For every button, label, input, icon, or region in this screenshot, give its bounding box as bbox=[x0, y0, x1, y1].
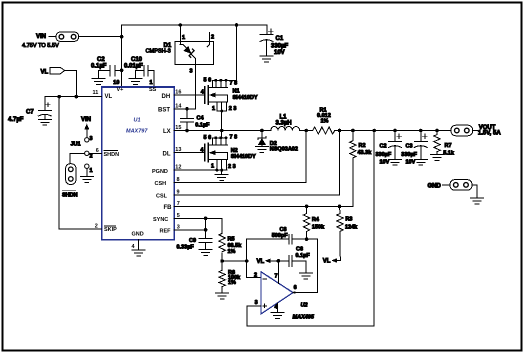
node R4/C8 junction bbox=[305, 237, 309, 241]
wire C8 node to op-amp output bbox=[307, 239, 318, 292]
SKIP overline bbox=[105, 225, 116, 227]
svg-text:0.33µF: 0.33µF bbox=[177, 245, 195, 251]
svg-text:330µF: 330µF bbox=[271, 44, 288, 50]
wire LX line bbox=[174, 130, 271, 132]
svg-text:MAX797: MAX797 bbox=[126, 129, 148, 135]
svg-text:1: 1 bbox=[90, 168, 93, 174]
wire BST bbox=[174, 108, 195, 110]
svg-text:10: 10 bbox=[113, 80, 119, 86]
node C2 tap bbox=[120, 69, 124, 73]
svg-text:15: 15 bbox=[175, 125, 181, 131]
svg-text:4.75V TO 5.5V: 4.75V TO 5.5V bbox=[22, 43, 59, 49]
svg-text:5.1k: 5.1k bbox=[443, 151, 455, 157]
transistor N2 Si4410DY bbox=[200, 131, 256, 171]
wire op-amp pin7 supply bbox=[277, 261, 279, 284]
svg-text:DH: DH bbox=[162, 94, 171, 100]
svg-text:SHDN: SHDN bbox=[62, 193, 78, 199]
svg-text:R4: R4 bbox=[312, 217, 320, 223]
ground C2 bbox=[92, 78, 105, 84]
ground C6 bbox=[299, 273, 312, 279]
diode D1 CMPSH-3 bbox=[146, 25, 215, 74]
svg-text:CMPSH-3: CMPSH-3 bbox=[146, 48, 171, 54]
diode D2 NSQ03A02 bbox=[258, 131, 298, 153]
capacitor C4 bbox=[181, 109, 211, 131]
svg-text:1%: 1% bbox=[321, 119, 329, 125]
svg-text:1: 1 bbox=[212, 106, 215, 112]
svg-text:SS: SS bbox=[149, 87, 157, 93]
wire JU1 pin2 to SHDN connector bbox=[70, 153, 85, 163]
node inv input junction bbox=[245, 259, 249, 263]
capacitor C9 bbox=[177, 238, 213, 251]
capacitor C7 bbox=[8, 97, 51, 123]
connector J3 GND bbox=[428, 180, 478, 198]
svg-text:LX: LX bbox=[163, 129, 171, 135]
wire REF bbox=[174, 229, 206, 231]
svg-text:4: 4 bbox=[132, 244, 136, 250]
resistor R7 bbox=[434, 131, 455, 157]
svg-text:VIN: VIN bbox=[81, 117, 91, 123]
svg-text:0.01µF: 0.01µF bbox=[124, 64, 143, 70]
svg-text:C4: C4 bbox=[197, 115, 205, 121]
svg-text:2: 2 bbox=[254, 272, 257, 278]
node C3out tap bbox=[419, 129, 423, 133]
ground R7 bbox=[431, 155, 444, 161]
connector J2 VOUT bbox=[451, 125, 501, 137]
capacitor C10 bbox=[124, 57, 154, 87]
ground N2 source bbox=[215, 170, 228, 181]
wire CSL sense bbox=[174, 131, 339, 195]
wire inv node to pin2 bbox=[247, 261, 261, 278]
svg-text:Si4410DY: Si4410DY bbox=[231, 154, 256, 160]
svg-text:V+: V+ bbox=[117, 87, 124, 93]
ground C9 bbox=[199, 250, 212, 256]
svg-text:C2: C2 bbox=[380, 144, 387, 150]
svg-text:N2: N2 bbox=[231, 148, 238, 154]
ground R6 bbox=[216, 293, 229, 299]
wire PGND line bbox=[174, 169, 227, 171]
svg-text:CSH: CSH bbox=[155, 181, 167, 187]
svg-text:R7: R7 bbox=[445, 143, 452, 149]
node REF junction bbox=[204, 228, 208, 232]
resistor R4 bbox=[303, 206, 325, 239]
wire CSH sense bbox=[174, 131, 306, 183]
svg-text:SYNC: SYNC bbox=[153, 217, 168, 223]
wire D1 pin3 to BST bbox=[194, 65, 196, 109]
svg-text:1%: 1% bbox=[228, 249, 236, 255]
wire REF to C9 bbox=[205, 218, 207, 238]
svg-text:10V: 10V bbox=[380, 160, 390, 166]
svg-text:5 6: 5 6 bbox=[204, 135, 212, 141]
wire inv node up to C8 bbox=[247, 239, 289, 261]
wire to inv input node bbox=[222, 260, 247, 262]
svg-text:DL: DL bbox=[163, 151, 171, 157]
inductor L1 bbox=[271, 114, 300, 130]
node CSL sense tap bbox=[338, 129, 342, 133]
jumper JU1 pin1 bbox=[85, 164, 93, 177]
capacitor C3 output bbox=[401, 131, 427, 166]
ground C10 bbox=[129, 78, 142, 84]
capacitor C2 output bbox=[376, 131, 402, 166]
node R7 tap bbox=[435, 129, 439, 133]
node BST/C4 junction bbox=[185, 107, 189, 111]
wire N1 drain to top rail bbox=[236, 25, 238, 80]
svg-text:2 3: 2 3 bbox=[229, 106, 237, 112]
svg-text:3: 3 bbox=[90, 136, 93, 142]
svg-text:1: 1 bbox=[150, 80, 153, 86]
svg-text:REF: REF bbox=[160, 228, 172, 234]
svg-text:MAX495: MAX495 bbox=[293, 314, 315, 320]
svg-text:R5: R5 bbox=[228, 237, 235, 243]
svg-text:VIN: VIN bbox=[36, 34, 46, 40]
node C2out tap bbox=[393, 129, 397, 133]
node SKIP branch junction bbox=[57, 95, 61, 99]
ground C7 bbox=[38, 119, 51, 125]
svg-text:CSL: CSL bbox=[156, 193, 168, 199]
svg-text:7: 7 bbox=[275, 273, 278, 279]
svg-text:10V: 10V bbox=[274, 50, 285, 56]
node N2 source junctions bbox=[215, 169, 218, 172]
connector SHDN header bbox=[62, 164, 78, 199]
ground U1 GND bbox=[132, 250, 145, 256]
svg-text:SKIP: SKIP bbox=[104, 227, 117, 233]
node VIN junction bbox=[120, 35, 124, 39]
node VL flag junction bbox=[75, 95, 79, 99]
svg-text:C1: C1 bbox=[276, 36, 284, 42]
svg-text:R2: R2 bbox=[359, 143, 366, 149]
wire SYNC bbox=[174, 218, 222, 233]
wire DH to N1 gate bbox=[174, 94, 205, 96]
ground op-amp pin4 bbox=[271, 313, 284, 319]
svg-text:Si4410DY: Si4410DY bbox=[233, 95, 258, 101]
svg-text:2: 2 bbox=[90, 154, 93, 160]
resistor R2 bbox=[350, 131, 373, 158]
node R4 tap on FB bbox=[305, 205, 309, 209]
svg-text:330µF: 330µF bbox=[401, 152, 417, 158]
svg-text:3: 3 bbox=[255, 300, 258, 306]
IC U1 MAX797 controller bbox=[102, 87, 174, 240]
wire op-amp output bbox=[293, 292, 317, 294]
node VL tag R3 bbox=[323, 258, 337, 264]
wire R1 to output node bbox=[334, 130, 451, 132]
svg-text:3.3µH: 3.3µH bbox=[276, 120, 292, 126]
svg-text:GND: GND bbox=[132, 231, 144, 237]
svg-text:N1: N1 bbox=[233, 89, 240, 95]
svg-text:5 6: 5 6 bbox=[204, 78, 212, 84]
svg-text:1: 1 bbox=[211, 164, 214, 170]
svg-text:GND: GND bbox=[428, 183, 442, 189]
svg-text:FB: FB bbox=[164, 205, 173, 211]
svg-text:R3: R3 bbox=[345, 216, 352, 222]
capacitor C1 bbox=[260, 25, 288, 56]
node SYNC/REF tie bbox=[204, 217, 208, 221]
svg-text:VL: VL bbox=[323, 259, 331, 265]
wire op-amp pin3 sense bbox=[247, 131, 374, 327]
svg-text:43.3k: 43.3k bbox=[358, 150, 373, 156]
svg-text:VL: VL bbox=[257, 259, 265, 265]
node R3 tap on FB bbox=[338, 205, 342, 209]
pin numbers U1 bbox=[93, 89, 183, 250]
svg-text:7 8: 7 8 bbox=[230, 135, 238, 141]
resistor R6 bbox=[219, 261, 241, 293]
svg-text:6: 6 bbox=[294, 285, 297, 291]
svg-text:1: 1 bbox=[182, 35, 185, 41]
svg-text:124k: 124k bbox=[345, 224, 358, 230]
svg-text:U2: U2 bbox=[301, 303, 308, 309]
capacitor C6 bbox=[289, 247, 310, 274]
wire DL to N2 gate bbox=[174, 152, 205, 154]
SHDN overline bbox=[104, 150, 118, 152]
node D1 anode tap bbox=[179, 23, 183, 27]
node R5/R6 junction bbox=[220, 259, 224, 263]
svg-text:C7: C7 bbox=[26, 110, 34, 116]
svg-text:C9: C9 bbox=[189, 238, 196, 244]
node VL tag op-amp bbox=[257, 259, 289, 265]
svg-text:C2: C2 bbox=[97, 57, 105, 63]
svg-text:500pF: 500pF bbox=[272, 233, 289, 239]
op-amp U2 bbox=[254, 272, 315, 321]
svg-text:1.5V, 5A: 1.5V, 5A bbox=[478, 131, 501, 137]
svg-text:C3: C3 bbox=[406, 144, 413, 150]
wire U1 GND pin bbox=[138, 240, 140, 250]
svg-text:SHDN: SHDN bbox=[104, 152, 120, 158]
jumper JU1 bbox=[71, 117, 93, 160]
node D2/LX bbox=[260, 129, 264, 133]
svg-text:3: 3 bbox=[190, 68, 193, 74]
wire VIN to V+ node bbox=[79, 36, 122, 38]
ground C2 output bbox=[389, 159, 402, 165]
svg-text:C10: C10 bbox=[131, 57, 143, 63]
ground J3 bbox=[471, 198, 484, 204]
wire JU1 pin2 to SHDN pin bbox=[89, 152, 102, 154]
wire L1 to R1 bbox=[300, 130, 313, 132]
resistor R5 bbox=[219, 233, 242, 261]
resistor R1 bbox=[313, 108, 335, 134]
svg-text:0.1µF: 0.1µF bbox=[91, 64, 107, 70]
node N1 source/LX bbox=[220, 129, 224, 133]
node N1 drain tap bbox=[235, 23, 239, 27]
svg-text:VL: VL bbox=[41, 69, 49, 75]
resistor R3 bbox=[337, 206, 359, 260]
svg-text:2 3: 2 3 bbox=[228, 164, 236, 170]
ground JU1 pin1 bbox=[80, 177, 93, 183]
svg-text:BST: BST bbox=[158, 108, 170, 114]
svg-text:10V: 10V bbox=[406, 160, 416, 166]
svg-text:0.1µF: 0.1µF bbox=[195, 122, 210, 128]
svg-text:4.7µF: 4.7µF bbox=[8, 117, 24, 123]
node output pin dot bbox=[293, 291, 295, 293]
node R2 tap bbox=[351, 129, 355, 133]
wire FB line bbox=[174, 158, 353, 207]
svg-text:2: 2 bbox=[211, 35, 214, 41]
svg-text:U1: U1 bbox=[134, 118, 141, 124]
node C4/LX bbox=[185, 129, 189, 133]
node VL tag bbox=[41, 67, 77, 96]
connector J1 VIN bbox=[22, 32, 79, 49]
svg-text:C6: C6 bbox=[296, 247, 303, 253]
svg-text:PGND: PGND bbox=[152, 169, 168, 175]
svg-text:0.1µF: 0.1µF bbox=[296, 253, 311, 259]
svg-text:1%: 1% bbox=[228, 280, 236, 286]
svg-text:VL: VL bbox=[105, 94, 113, 100]
svg-text:150k: 150k bbox=[312, 225, 325, 231]
capacitor C2 bbox=[91, 57, 122, 78]
wire op-amp pin4 bbox=[277, 303, 279, 313]
svg-text:JU1: JU1 bbox=[71, 141, 81, 147]
wire VL line bbox=[45, 96, 102, 98]
transistor N1 Si4410DY bbox=[201, 78, 258, 131]
svg-text:330µF: 330µF bbox=[376, 152, 392, 158]
svg-text:7 8: 7 8 bbox=[230, 81, 238, 87]
node VOUT sense tap bbox=[372, 129, 376, 133]
ground C1 bbox=[260, 56, 273, 62]
svg-text:NSQ03A02: NSQ03A02 bbox=[270, 147, 298, 153]
wire V+ feed bbox=[121, 37, 123, 87]
wire top rail bbox=[122, 25, 267, 37]
capacitor C8 bbox=[272, 227, 307, 244]
node pin7/C6 junction bbox=[277, 259, 281, 263]
node CSH sense tap bbox=[304, 129, 308, 133]
ground C3 output bbox=[414, 159, 427, 165]
ground D2 bbox=[255, 147, 268, 153]
wire SKIP tie to VL bbox=[59, 97, 101, 229]
svg-text:11: 11 bbox=[93, 90, 99, 96]
